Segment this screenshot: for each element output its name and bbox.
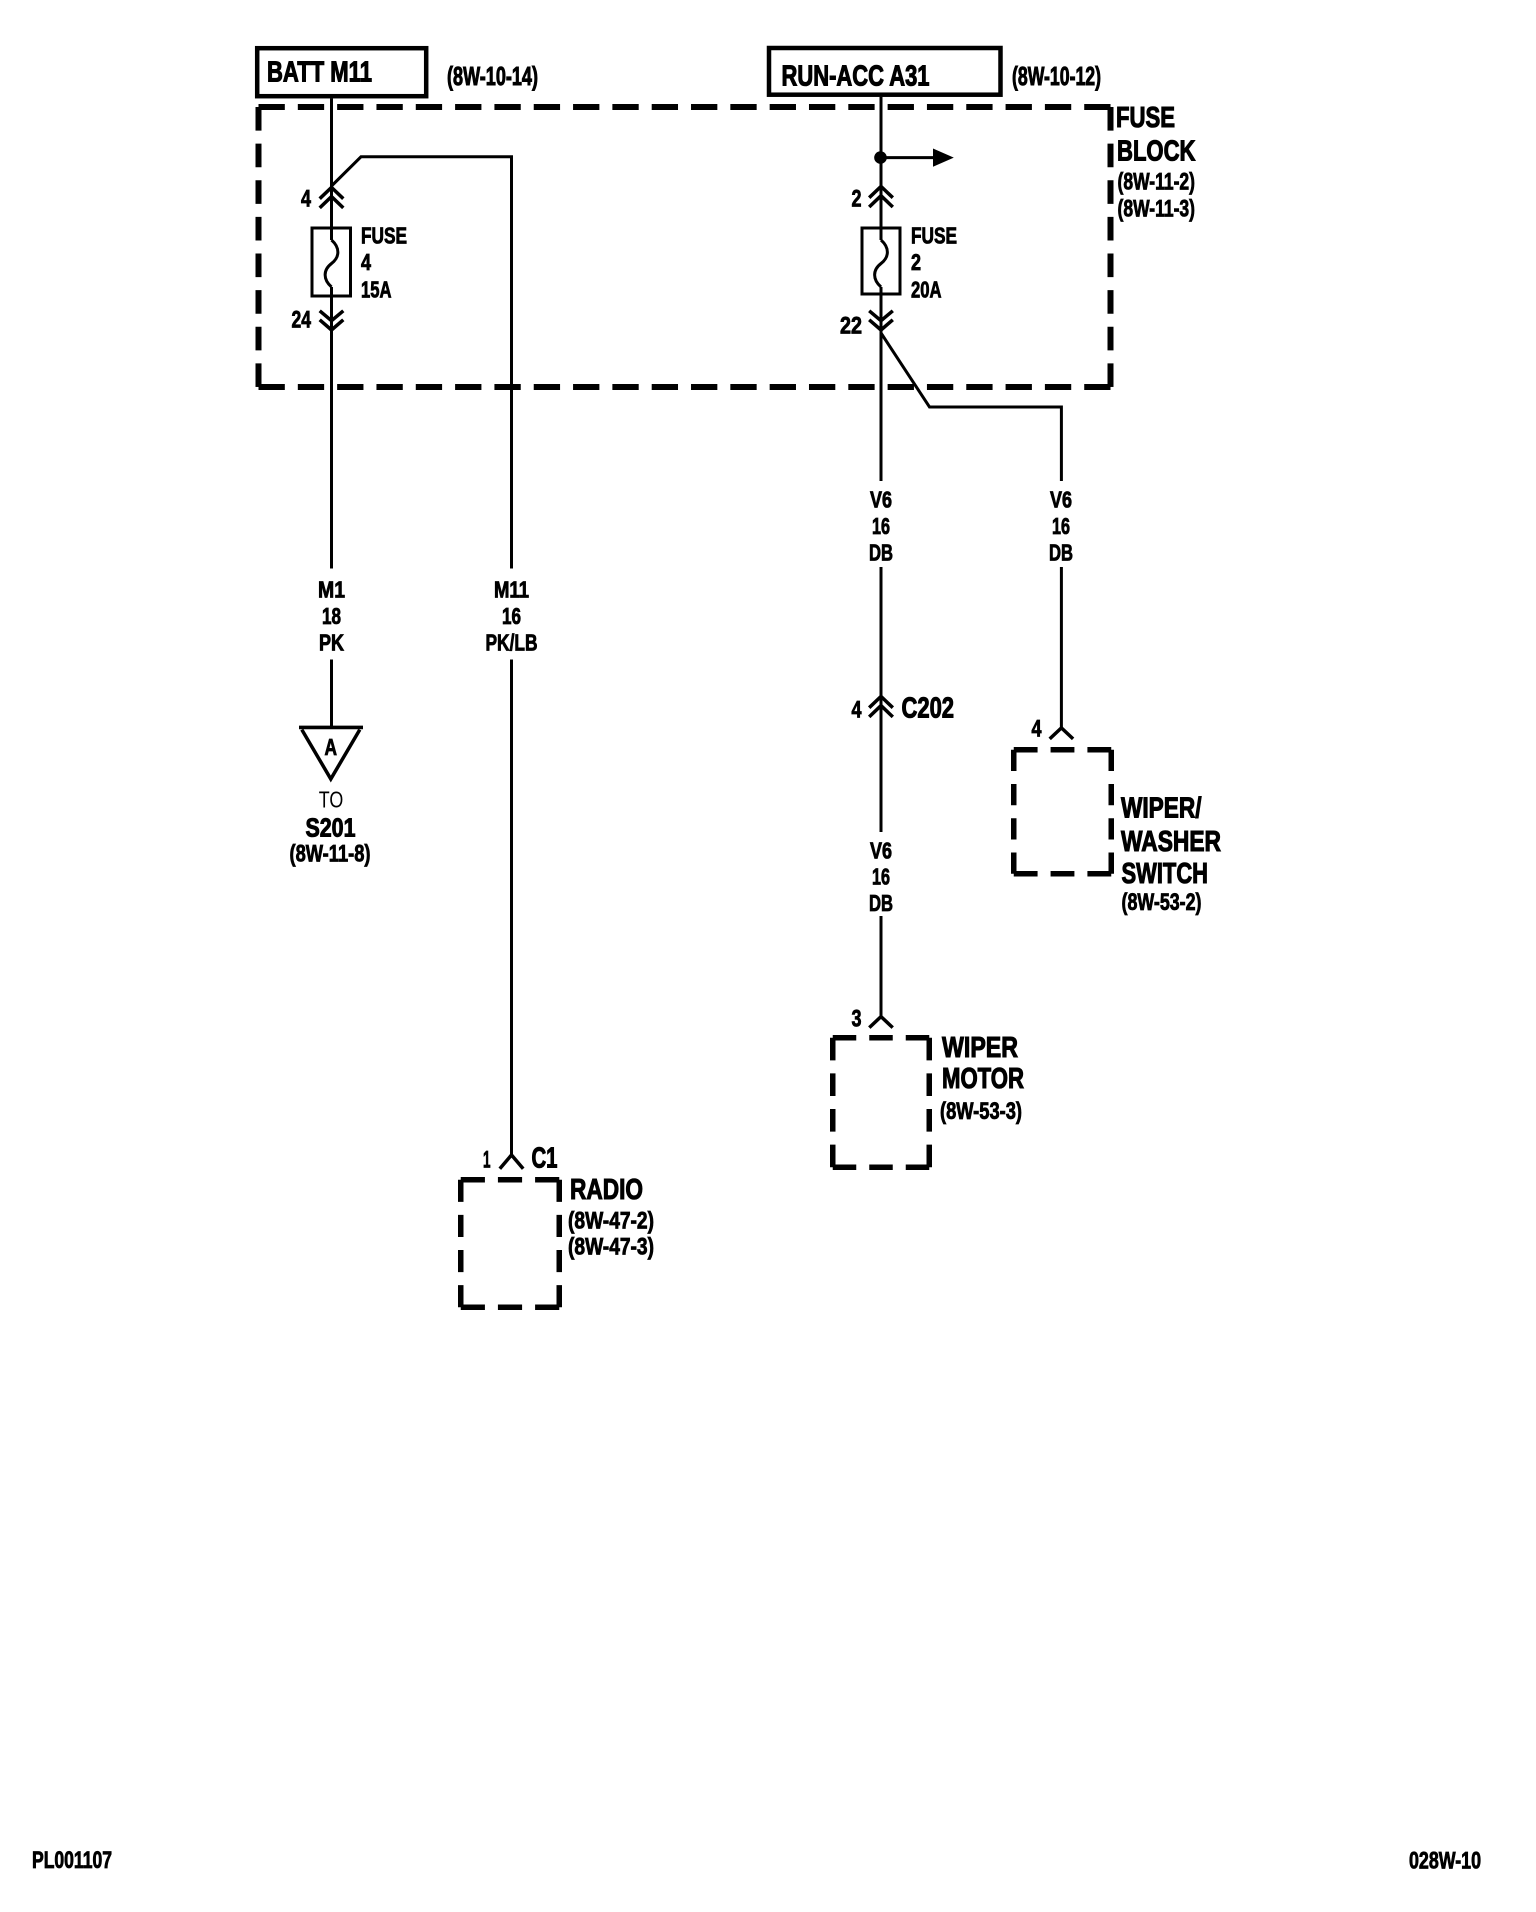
svg-text:WIPER/: WIPER/ bbox=[1121, 793, 1202, 825]
fuse block label bbox=[1116, 102, 1196, 223]
svg-text:16: 16 bbox=[502, 603, 521, 629]
svg-text:16: 16 bbox=[872, 513, 890, 539]
power feed box BATT M11 bbox=[257, 48, 426, 96]
svg-text:16: 16 bbox=[1052, 513, 1070, 539]
footer code 028W-10 bbox=[1409, 1848, 1481, 1875]
svg-text:(8W-53-3): (8W-53-3) bbox=[940, 1098, 1022, 1125]
svg-text:M1: M1 bbox=[318, 577, 345, 603]
svg-text:SWITCH: SWITCH bbox=[1122, 858, 1209, 890]
svg-text:028W-10: 028W-10 bbox=[1409, 1848, 1481, 1875]
svg-text:2: 2 bbox=[852, 186, 862, 213]
fuse block dashed outline bbox=[259, 107, 1111, 387]
svg-text:3: 3 bbox=[852, 1006, 862, 1033]
pin 4 connector bbox=[301, 186, 343, 213]
svg-text:4: 4 bbox=[301, 186, 311, 213]
svg-text:RUN-ACC A31: RUN-ACC A31 bbox=[782, 61, 930, 93]
svg-text:V6: V6 bbox=[870, 487, 892, 513]
wire label V6 16 DB upper bbox=[869, 487, 893, 566]
pin 22 connector bbox=[840, 311, 893, 340]
wiper/washer switch label bbox=[1121, 793, 1221, 917]
svg-text:PK/LB: PK/LB bbox=[486, 630, 538, 656]
svg-text:V6: V6 bbox=[870, 838, 892, 864]
wire M1 to splice bbox=[330, 660, 333, 728]
wire fuse 4 internal lower bbox=[330, 287, 333, 569]
wiper motor box bbox=[833, 1038, 930, 1168]
wire RUN-ACC A31 to fuse 2 bbox=[880, 97, 883, 240]
svg-text:15A: 15A bbox=[361, 277, 392, 303]
svg-text:BLOCK: BLOCK bbox=[1117, 136, 1196, 168]
svg-text:C202: C202 bbox=[902, 693, 955, 725]
pin 1 connector C1 bbox=[483, 1143, 558, 1175]
svg-text:A: A bbox=[325, 734, 338, 760]
pin 4 connector switch bbox=[1032, 716, 1074, 743]
svg-text:DB: DB bbox=[869, 890, 893, 916]
reference (8W-10-12) bbox=[1012, 61, 1101, 91]
svg-text:MOTOR: MOTOR bbox=[942, 1063, 1024, 1095]
svg-text:(8W-47-2): (8W-47-2) bbox=[568, 1208, 654, 1235]
splice symbol A bbox=[299, 727, 363, 779]
wire label V6 16 DB lower bbox=[869, 838, 893, 917]
svg-text:M11: M11 bbox=[494, 577, 529, 603]
wire V6 fuse 2 to C202 bbox=[880, 287, 883, 832]
fuse 2 20A bbox=[862, 223, 957, 303]
svg-text:22: 22 bbox=[840, 313, 862, 340]
radio box bbox=[461, 1180, 560, 1308]
wire V6 branch to wiper/washer switch bbox=[881, 333, 1061, 728]
wire label V6 16 DB branch bbox=[1049, 487, 1073, 566]
svg-text:(8W-53-2): (8W-53-2) bbox=[1122, 889, 1202, 916]
arrow to other circuits bbox=[885, 149, 954, 167]
junction dot bbox=[874, 151, 887, 164]
svg-text:PK: PK bbox=[319, 630, 344, 656]
pin 2 connector bbox=[852, 186, 893, 213]
svg-text:20A: 20A bbox=[911, 277, 942, 303]
svg-text:WIPER: WIPER bbox=[942, 1032, 1018, 1064]
node TO S201 bbox=[290, 787, 371, 868]
wire label M1 18 PK bbox=[318, 577, 345, 656]
svg-text:16: 16 bbox=[872, 864, 890, 890]
wiper/washer switch box bbox=[1014, 750, 1112, 874]
wire BATT M11 to fuse 4 bbox=[330, 99, 333, 241]
svg-text:TO: TO bbox=[319, 787, 344, 813]
pin 3 connector bbox=[852, 1006, 893, 1033]
svg-text:(8W-11-2): (8W-11-2) bbox=[1118, 169, 1196, 196]
pin 24 connector bbox=[292, 307, 344, 334]
footer code PL001107 bbox=[32, 1847, 112, 1874]
svg-text:2: 2 bbox=[911, 249, 921, 275]
wire M11 to radio bbox=[332, 157, 512, 1155]
svg-text:(8W-10-14): (8W-10-14) bbox=[447, 61, 538, 91]
svg-text:RADIO: RADIO bbox=[570, 1174, 643, 1206]
svg-text:4: 4 bbox=[852, 697, 862, 724]
svg-text:FUSE: FUSE bbox=[911, 223, 957, 249]
svg-text:(8W-10-12): (8W-10-12) bbox=[1012, 61, 1101, 91]
power feed box RUN-ACC A31 bbox=[769, 48, 1001, 95]
svg-text:24: 24 bbox=[292, 307, 312, 334]
svg-text:18: 18 bbox=[322, 603, 341, 629]
svg-text:(8W-11-8): (8W-11-8) bbox=[290, 841, 371, 868]
svg-text:4: 4 bbox=[1032, 716, 1042, 743]
connector C202 pin 4 bbox=[852, 693, 955, 725]
svg-text:WASHER: WASHER bbox=[1121, 826, 1221, 858]
svg-text:C1: C1 bbox=[532, 1143, 558, 1175]
svg-text:4: 4 bbox=[361, 249, 371, 275]
fuse 4 15A bbox=[312, 223, 407, 303]
svg-text:FUSE: FUSE bbox=[361, 223, 407, 249]
svg-text:DB: DB bbox=[1049, 540, 1073, 566]
svg-text:FUSE: FUSE bbox=[1116, 102, 1175, 134]
wire label M11 16 PK/LB bbox=[486, 577, 538, 656]
radio label bbox=[568, 1174, 654, 1261]
reference (8W-10-14) bbox=[447, 61, 538, 91]
wire V6 to wiper motor bbox=[880, 916, 883, 1017]
svg-text:DB: DB bbox=[869, 540, 893, 566]
svg-text:V6: V6 bbox=[1050, 487, 1072, 513]
svg-text:(8W-47-3): (8W-47-3) bbox=[568, 1234, 654, 1261]
svg-text:1: 1 bbox=[483, 1147, 491, 1174]
svg-text:PL001107: PL001107 bbox=[32, 1847, 112, 1874]
svg-text:BATT M11: BATT M11 bbox=[267, 57, 372, 89]
wiper motor label bbox=[940, 1032, 1024, 1125]
svg-text:S201: S201 bbox=[306, 813, 356, 843]
svg-text:(8W-11-3): (8W-11-3) bbox=[1118, 196, 1196, 223]
